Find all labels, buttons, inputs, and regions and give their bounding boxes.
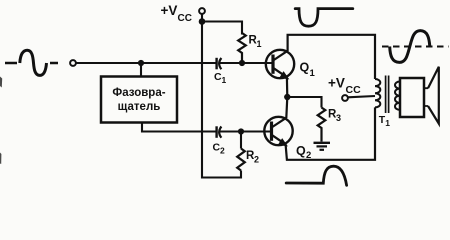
ground bbox=[314, 143, 331, 150]
phase shifter block bbox=[101, 77, 177, 123]
node: R2 / C2 / Q2 base junction bbox=[238, 128, 244, 134]
svg-text:1: 1 bbox=[310, 68, 316, 79]
scan smudges left edge bbox=[0, 77, 2, 165]
resistor R3 bbox=[318, 108, 341, 142]
waveform: output full sine with dashed axis bbox=[382, 31, 449, 63]
wire: Vcc bias rail down to R2 bottom bbox=[202, 22, 241, 178]
transistor Q1 bbox=[266, 50, 316, 79]
wire: Vcc to R1 top bbox=[202, 22, 242, 35]
wire: C1 junction to Q1 base bbox=[242, 62, 273, 64]
resistor R2 bbox=[237, 132, 259, 171]
transistor Q2 bbox=[264, 117, 311, 161]
node: output junction bbox=[284, 94, 290, 100]
capacitor C2 bbox=[213, 126, 242, 155]
waveform: Q1 output half-wave (negative half) bbox=[295, 9, 353, 27]
transformer T1 label bbox=[379, 114, 390, 128]
+Vcc terminal (transformer center tap) bbox=[328, 76, 375, 101]
waveform: Q2 output half-wave (positive half) bbox=[286, 166, 346, 185]
svg-text:+V: +V bbox=[328, 76, 345, 91]
wire: output node to R3 bbox=[287, 97, 321, 108]
node: R1 / C1 / Q1 base junction bbox=[239, 60, 245, 66]
svg-text:3: 3 bbox=[336, 113, 341, 123]
svg-text:Фазовра-: Фазовра- bbox=[112, 87, 165, 99]
wire: Q2 emitter to bottom rail and transformer bbox=[286, 107, 375, 159]
node: junction to phase shifter bbox=[138, 60, 144, 66]
transformer T1 primary winding bbox=[375, 79, 380, 107]
svg-text:2: 2 bbox=[254, 155, 259, 165]
transformer T1 secondary winding bbox=[395, 82, 400, 110]
svg-text:2: 2 bbox=[220, 146, 225, 156]
input terminal bbox=[70, 60, 76, 66]
wire: input to C1 bbox=[76, 62, 215, 64]
svg-text:Q: Q bbox=[300, 61, 310, 75]
svg-text:1: 1 bbox=[385, 118, 390, 128]
wire: phase shifter output down and right to C2 bbox=[142, 123, 216, 132]
svg-text:1: 1 bbox=[222, 75, 227, 85]
svg-text:щатель: щатель bbox=[118, 101, 161, 113]
resistor R1 bbox=[238, 33, 261, 63]
svg-text:1: 1 bbox=[257, 39, 262, 49]
svg-text:CC: CC bbox=[346, 84, 362, 96]
svg-text:+V: +V bbox=[161, 3, 178, 18]
input signal source sine wave with dashed axis bbox=[5, 50, 58, 75]
speaker bbox=[400, 67, 439, 124]
wire: Q1 collector up to top rail and to transformer bbox=[288, 35, 375, 79]
wire: stub down to phase shifter bbox=[140, 63, 142, 77]
svg-text:CC: CC bbox=[178, 13, 192, 24]
wire: C2 junction to Q2 base bbox=[241, 130, 272, 132]
+Vcc terminal (top) bbox=[161, 3, 205, 24]
node: Vcc junction bbox=[199, 18, 206, 25]
capacitor C1 bbox=[214, 58, 242, 85]
transformer T1 core bbox=[386, 76, 389, 114]
wire: Q1 emitter down / Q2 collector up to output node bbox=[286, 78, 287, 119]
svg-text:Q: Q bbox=[296, 144, 306, 158]
